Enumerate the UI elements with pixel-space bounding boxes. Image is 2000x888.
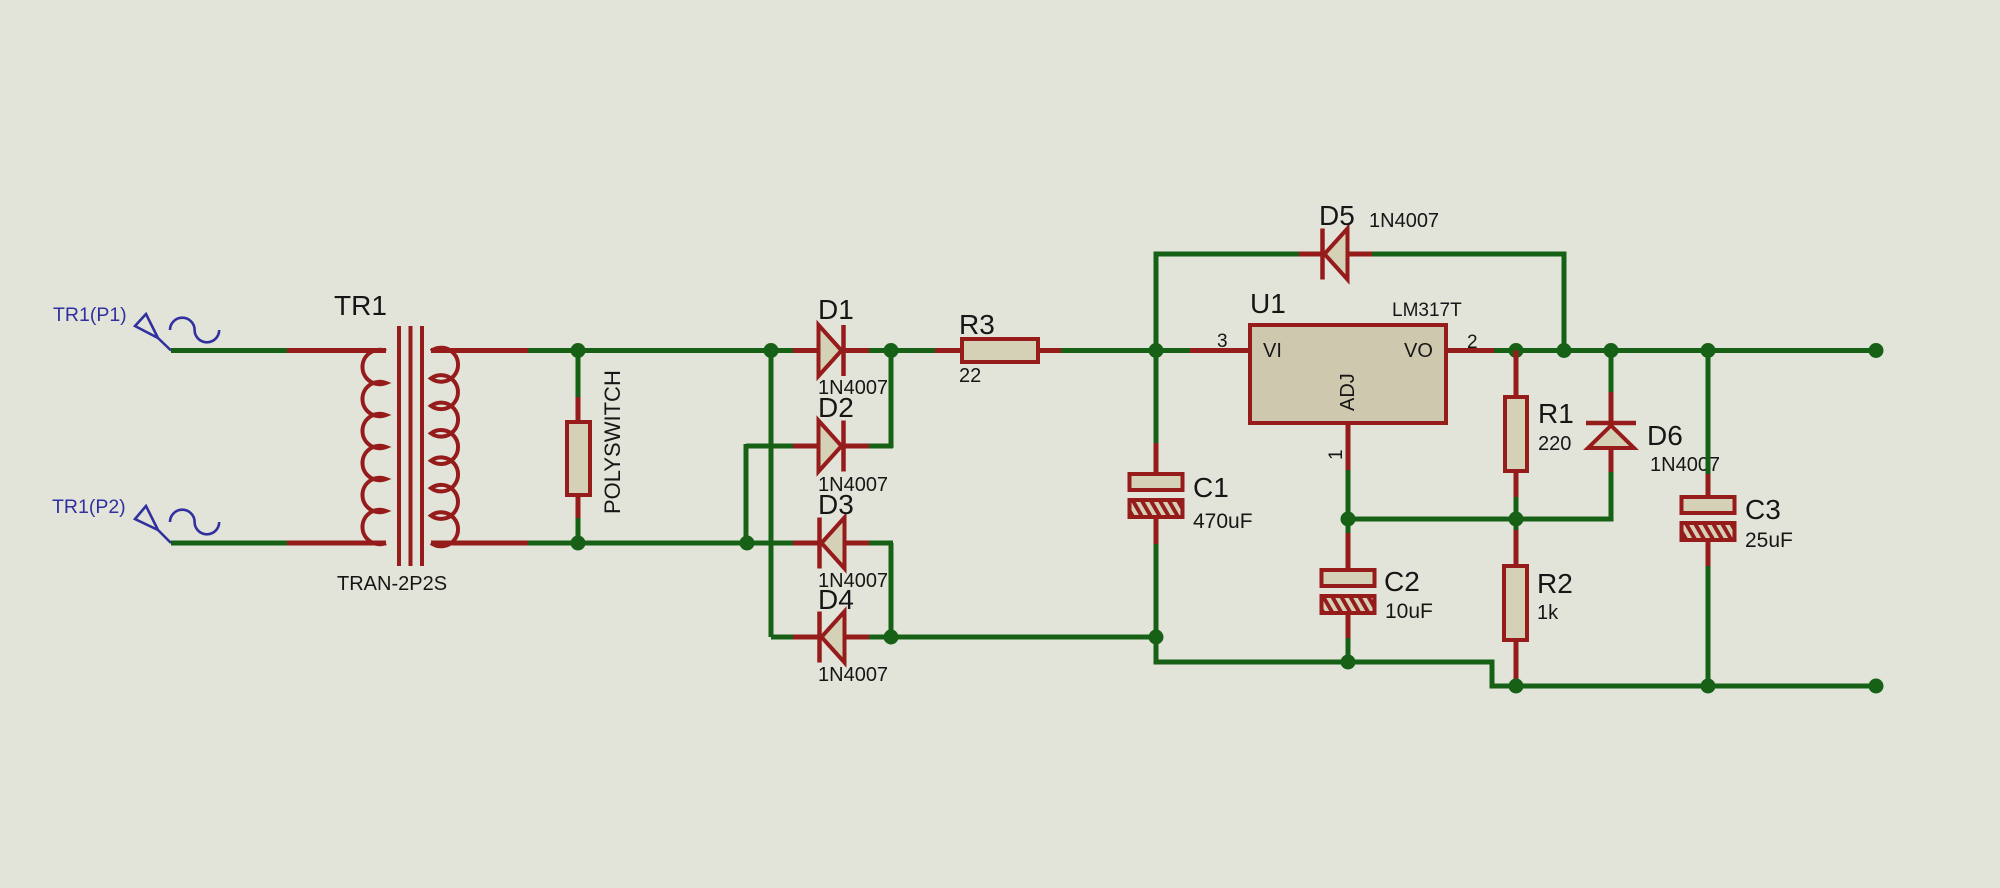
U1 pin 3 number label xyxy=(1217,331,1228,352)
polyswitch label xyxy=(600,370,625,514)
junction node VO / C3 xyxy=(1701,343,1716,358)
junction node R2 / ground bus xyxy=(1509,679,1524,694)
wire VI node up to D5 xyxy=(1154,252,1302,351)
junction node AC bottom / D2 / D3 xyxy=(740,536,755,551)
diode D1 value label 1N4007 xyxy=(818,377,888,399)
polyswitch bottom pin xyxy=(576,493,581,543)
wire VI node to U1 pin 3 xyxy=(1156,348,1250,353)
wire C3 bottom to ground bus xyxy=(1706,538,1711,686)
junction node VO / R1 xyxy=(1509,343,1524,358)
diode D5 value label 1N4007 xyxy=(1369,210,1439,232)
capacitor C1 value label 470uF xyxy=(1193,510,1253,533)
resistor R3 reference label xyxy=(959,309,995,340)
wire D1 node to R3 xyxy=(891,348,963,353)
svg-text:1: 1 xyxy=(1326,449,1347,460)
U1 ADJ pin 1 wire xyxy=(1346,423,1351,521)
U1 pin 1 number label xyxy=(1326,449,1347,460)
wire U1 VO pin 2 to output node xyxy=(1446,348,1518,353)
resistor R3 value label 22 xyxy=(959,365,981,387)
resistor R2 reference label xyxy=(1537,568,1573,599)
wire C1 bottom to negative bus xyxy=(1154,515,1159,637)
regulator U1 body xyxy=(1250,325,1446,423)
svg-text:U1: U1 xyxy=(1250,288,1286,319)
junction node C2 / negative bus xyxy=(1341,655,1356,670)
svg-text:LM317T: LM317T xyxy=(1392,300,1462,321)
svg-text:TRAN-2P2S: TRAN-2P2S xyxy=(337,573,447,595)
capacitor C2 value label 10uF xyxy=(1385,600,1433,623)
U1 pin name ADJ xyxy=(1337,373,1359,411)
diode D2 reference label xyxy=(818,392,854,423)
wire ADJ row down to R2 xyxy=(1514,519,1519,568)
input terminal P1 symbol xyxy=(135,314,219,351)
capacitor C1 reference label xyxy=(1193,472,1229,503)
diode D5 xyxy=(1323,229,1348,280)
wire D6 anode down to ADJ row xyxy=(1609,446,1614,519)
diode D1 reference label xyxy=(818,294,854,325)
diode D3 xyxy=(820,518,845,569)
resistor R3 xyxy=(962,339,1038,362)
diode D4 reference label xyxy=(818,584,854,615)
svg-text:D2: D2 xyxy=(818,392,854,423)
svg-text:1k: 1k xyxy=(1537,602,1559,624)
junction node ADJ / R1 / R2 xyxy=(1509,512,1524,527)
capacitor C1 xyxy=(1130,474,1183,517)
svg-text:D5: D5 xyxy=(1319,200,1355,231)
junction node VO / D5 return xyxy=(1557,343,1572,358)
U1 reference label xyxy=(1250,288,1286,319)
output terminal node bottom xyxy=(1869,679,1884,694)
svg-text:3: 3 xyxy=(1217,331,1228,352)
diode D5 reference label xyxy=(1319,200,1355,231)
polyswitch body xyxy=(567,422,590,495)
capacitor C2 xyxy=(1322,570,1375,613)
wire D4 anode to negative bus xyxy=(844,635,1158,640)
wire output rail xyxy=(1516,348,1878,353)
wire D3 anode down to D4 anode xyxy=(844,543,893,637)
wire negative bus step xyxy=(1154,637,1879,686)
wire secondary bottom (TR1 to node) xyxy=(431,541,749,546)
wire node to D1 anode xyxy=(773,348,819,353)
wire C2 bottom to negative bus xyxy=(1346,611,1351,662)
transformer TR1 core xyxy=(399,326,422,566)
U1 value label LM317T xyxy=(1392,300,1462,321)
wire R2 bottom to ground bus xyxy=(1514,638,1519,686)
wire R3 to VI node xyxy=(1037,348,1158,353)
junction node AC top / D1 / D4 xyxy=(764,343,779,358)
diode D3 reference label xyxy=(818,489,854,520)
svg-text:10uF: 10uF xyxy=(1385,600,1433,623)
svg-text:C2: C2 xyxy=(1384,566,1420,597)
wire primary bottom (P2 to TR1) xyxy=(171,541,386,546)
capacitor C3 reference label xyxy=(1745,494,1781,525)
input terminal TR1(P1) label xyxy=(53,304,127,326)
wire D2 cathode up to D1 cathode xyxy=(844,351,893,449)
junction node C1 / negative bus xyxy=(1149,630,1164,645)
wire VI node down to C1 xyxy=(1154,351,1159,477)
wire primary top (P1 to TR1) xyxy=(171,348,386,353)
svg-text:22: 22 xyxy=(959,365,981,387)
svg-text:POLYSWITCH: POLYSWITCH xyxy=(600,370,625,514)
diode D2 value label 1N4007 xyxy=(818,474,888,496)
transformer TR1 reference label xyxy=(334,290,387,321)
svg-text:1N4007: 1N4007 xyxy=(818,664,888,686)
junction node D1 cathode xyxy=(884,343,899,358)
transformer TR1 secondary winding xyxy=(431,348,458,547)
capacitor C3 xyxy=(1682,497,1735,540)
transformer TR1 primary winding xyxy=(362,350,386,544)
resistor R2 value label 1k xyxy=(1537,602,1559,624)
svg-text:25uF: 25uF xyxy=(1745,529,1793,552)
junction node VO / D6 xyxy=(1604,343,1619,358)
junction node D3/D4 anodes xyxy=(884,630,899,645)
wire output node down to D6 xyxy=(1609,351,1614,424)
svg-text:470uF: 470uF xyxy=(1193,510,1253,533)
resistor R1 reference label xyxy=(1538,398,1574,429)
svg-text:D6: D6 xyxy=(1647,420,1683,451)
svg-text:VI: VI xyxy=(1263,340,1282,362)
svg-text:R2: R2 xyxy=(1537,568,1573,599)
wire AC bottom to D3 cathode xyxy=(749,541,819,546)
U1 pin name VI xyxy=(1263,340,1282,362)
transformer TR1 value label TRAN-2P2S xyxy=(337,573,447,595)
junction node secondary top / polyswitch xyxy=(571,343,586,358)
svg-text:D4: D4 xyxy=(818,584,854,615)
svg-text:1N4007: 1N4007 xyxy=(1369,210,1439,232)
wire D2 anode branch xyxy=(746,444,819,543)
svg-text:2: 2 xyxy=(1467,332,1478,353)
wire ADJ row xyxy=(1348,517,1614,522)
junction node C3 / ground bus xyxy=(1701,679,1716,694)
diode D6 value label 1N4007 xyxy=(1650,454,1720,476)
wire D5 anode stub xyxy=(1299,252,1323,257)
svg-text:R1: R1 xyxy=(1538,398,1574,429)
resistor R1 value label 220 xyxy=(1538,433,1571,455)
wire ADJ node down to C2 xyxy=(1346,519,1351,572)
diode D2 xyxy=(819,421,844,472)
wire secondary top (TR1 to node) xyxy=(431,348,773,353)
svg-text:C3: C3 xyxy=(1745,494,1781,525)
resistor R2 xyxy=(1504,566,1527,640)
input terminal P2 symbol xyxy=(135,506,219,543)
svg-text:D1: D1 xyxy=(818,294,854,325)
polyswitch branch top pin xyxy=(576,351,581,425)
wire R1 bottom to ADJ row xyxy=(1514,469,1519,519)
svg-text:VO: VO xyxy=(1404,340,1433,362)
diode D3 value label 1N4007 xyxy=(818,570,888,592)
wire D1 cathode to node xyxy=(844,348,893,353)
junction node VI / C1 / D5 xyxy=(1149,343,1164,358)
svg-text:220: 220 xyxy=(1538,433,1571,455)
U1 pin name VO xyxy=(1404,340,1433,362)
svg-text:R3: R3 xyxy=(959,309,995,340)
wire AC top down to D4 cathode xyxy=(771,351,819,638)
svg-text:TR1(P1): TR1(P1) xyxy=(53,304,127,326)
junction node secondary bottom / polyswitch xyxy=(571,536,586,551)
diode D1 xyxy=(819,325,844,376)
input terminal TR1(P2) label xyxy=(52,496,126,518)
svg-text:TR1(P2): TR1(P2) xyxy=(52,496,126,518)
capacitor C3 value label 25uF xyxy=(1745,529,1793,552)
junction node ADJ xyxy=(1341,512,1356,527)
svg-text:C1: C1 xyxy=(1193,472,1229,503)
capacitor C2 reference label xyxy=(1384,566,1420,597)
diode D6 reference label xyxy=(1647,420,1683,451)
U1 pin 2 number label xyxy=(1467,332,1478,353)
diode D4 xyxy=(820,612,845,663)
svg-text:D3: D3 xyxy=(818,489,854,520)
wire output node down to C3 xyxy=(1706,351,1711,500)
diode D4 value label 1N4007 xyxy=(818,664,888,686)
wire output node down to R1 xyxy=(1514,351,1519,400)
svg-text:ADJ: ADJ xyxy=(1337,373,1359,411)
wire D5 cathode to VO node xyxy=(1347,252,1567,351)
svg-text:TR1: TR1 xyxy=(334,290,387,321)
output terminal node top xyxy=(1869,343,1884,358)
diode D6 xyxy=(1586,423,1636,448)
resistor R1 xyxy=(1505,397,1527,471)
